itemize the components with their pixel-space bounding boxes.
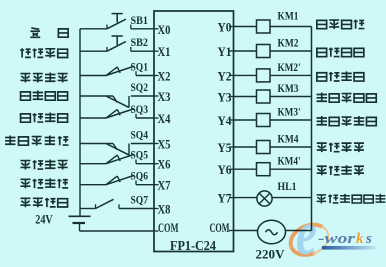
svg-text:KM4': KM4' [278,154,301,168]
pushbutton SB1 [80,14,154,29]
svg-text:X8: X8 [158,202,171,217]
label xiaoche youxing [317,165,364,175]
svg-text:SQ4: SQ4 [131,128,149,142]
svg-text:24V: 24V [35,213,53,227]
svg-text:s: s [365,231,372,247]
svg-text:COM: COM [158,221,179,235]
node Y0 [229,26,234,28]
svg-text:SQ2: SQ2 [131,80,149,94]
node X6 [154,163,159,165]
AC source 220V [258,220,286,244]
node Y7 [229,197,234,199]
svg-text:HL1: HL1 [278,179,297,193]
wire to bus [272,197,311,199]
node Y5 [229,146,234,148]
label xiaoche zuoxing [317,143,364,152]
label yakuai shangyi [317,48,364,57]
wire KM3 row [234,96,257,98]
label xiaoche kongzai zhishi [317,194,386,203]
svg-text:Y3: Y3 [218,90,232,105]
svg-text:SQ7: SQ7 [131,193,149,207]
label banliao daowei [20,73,67,83]
svg-text:SQ5: SQ5 [131,148,149,162]
wire to bus [270,74,312,76]
svg-text:KM3: KM3 [278,81,299,95]
wire to bus [270,96,312,98]
pushbutton SB2 [80,36,154,51]
svg-text:Y6: Y6 [218,162,232,177]
label xiaoche zhuangtai [20,178,68,188]
svg-text:X6: X6 [158,157,171,172]
svg-text:Y0: Y0 [218,20,232,35]
label songliao dianji (feed motor) [317,20,365,29]
svg-text:COM: COM [210,221,230,235]
svg-text:Y5: Y5 [218,140,232,155]
svg-text:k: k [356,231,364,247]
limit switch SQ3 (NO) [80,109,154,118]
label xitong qidong (system start) [20,48,67,57]
svg-text:KM2': KM2' [278,60,301,74]
switch SQ7 [80,199,154,208]
node Y2 [229,74,234,76]
label jianqiedao shangyi [317,93,377,103]
svg-text:KM3': KM3' [278,105,301,119]
svg-text:X2: X2 [158,69,171,84]
svg-text:X7: X7 [158,178,171,193]
lamp HL1 [257,191,272,206]
node X0 [154,28,159,30]
wire to bus [270,119,312,121]
wire COM right [234,230,258,232]
label banliao jishu [20,198,67,207]
svg-text:SQ3: SQ3 [131,102,149,116]
contactor coil KM1 [257,20,271,33]
right power bus [311,27,313,231]
svg-text:Y4: Y4 [218,113,232,128]
svg-text:Y7: Y7 [218,191,232,206]
wire to bus [270,26,312,28]
svg-text:X5: X5 [158,137,171,152]
svg-text:220V: 220V [256,246,286,261]
svg-text:X4: X4 [158,111,171,126]
wire to bus [270,146,312,148]
node X8 [154,208,159,210]
label yakuai xiayi [317,71,364,81]
contactor coil KM3&#39; [257,114,271,127]
limit switch SQ2 (NC, step) [80,96,154,108]
contactor coil KM2&#39; [257,69,271,82]
wire KM2 row [234,50,257,52]
svg-text:-wor: -wor [318,231,355,247]
label yakuai xiaxian [21,113,68,123]
svg-text:SQ1: SQ1 [131,60,149,74]
PLC box FP1-C24 [154,11,234,252]
node COM right [229,230,234,232]
node Y3 [229,96,234,98]
wire to bus [270,50,312,52]
label xiaoche daowei [20,160,67,170]
limit switch SQ1 (NO) [80,66,154,75]
svg-text:KM4: KM4 [278,132,299,146]
label yakuai shangxian [21,91,68,101]
svg-text:X1: X1 [158,44,171,59]
battery 24V [69,215,91,217]
node Y6 [229,168,234,170]
wire battery to COM [80,230,155,232]
limit switch SQ6 (NO) [80,175,154,184]
wire KM1 row [234,26,257,28]
e-works watermark logo [291,198,377,267]
wire KM3&#39; row [234,119,257,121]
wire KM4 row [234,146,257,148]
svg-text:SB1: SB1 [131,13,149,27]
svg-text:X3: X3 [158,89,171,104]
wire KM2&#39; row [234,74,257,76]
node COM left [154,230,159,232]
label jianqiedao xiayi [317,116,377,126]
svg-text:Y1: Y1 [218,44,232,59]
svg-text:KM1: KM1 [278,9,299,23]
contactor coil KM4 [257,141,271,154]
contactor coil KM4&#39; [257,163,271,176]
node X3 [154,95,159,97]
left 24V bus wire [79,29,81,217]
label jianqiedao zhuangtai [5,136,68,146]
svg-text:SQ6: SQ6 [131,169,149,183]
svg-text:Y2: Y2 [218,68,232,83]
node Y1 [229,50,234,52]
svg-text:SB2: SB2 [131,35,149,49]
label ting zhi (stop) [30,28,68,37]
node Y4 [229,119,234,121]
contactor coil KM2 [257,45,271,58]
node X2 [154,75,159,77]
wire to bus [270,168,312,170]
node X7 [154,184,159,186]
wire KM4&#39; row [234,168,257,170]
svg-text:X0: X0 [158,22,171,37]
svg-text:FP1-C24: FP1-C24 [170,238,216,253]
wire AC to bus [286,230,312,232]
svg-text:KM2: KM2 [278,36,299,50]
limit switch SQ5 (NO) [80,154,154,163]
node X4 [154,117,159,119]
contactor coil KM3 [257,90,271,103]
wire Y7 row [234,197,258,199]
node X5 [154,143,159,145]
node X1 [154,50,159,52]
limit switch SQ4 (NC, step) [80,144,154,156]
